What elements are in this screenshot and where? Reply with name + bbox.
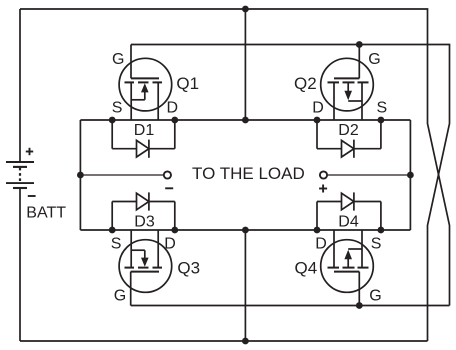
junction upper row / D2 anode stub: [314, 117, 321, 124]
node load - terminal: [164, 171, 171, 178]
svg-text:S: S: [377, 100, 388, 117]
wire left branch: [79, 120, 81, 230]
junction top rail / center vertical: [242, 6, 249, 13]
wire battery+ riser: [19, 9, 21, 162]
svg-text:D: D: [164, 235, 176, 252]
wire right branch: [409, 120, 411, 230]
svg-text:G: G: [114, 288, 126, 305]
svg-text:G: G: [112, 51, 124, 68]
transistor Q2: [321, 45, 374, 121]
wire load + lead: [327, 174, 410, 176]
junction upper row / D1 cathode stub: [171, 117, 178, 124]
svg-text:D: D: [167, 100, 179, 117]
battery - label: [28, 195, 36, 197]
battery BATT: [6, 162, 34, 188]
junction right branch / load +: [407, 172, 414, 179]
svg-text:Q1: Q1: [176, 74, 199, 93]
svg-text:D3: D3: [134, 214, 155, 231]
transistor Q1: [119, 45, 172, 121]
junction bottom gate row / Q4 gate: [356, 302, 363, 309]
svg-text:S: S: [111, 235, 122, 252]
wire center vertical bottom: [244, 230, 246, 341]
wire upper source-drain row: [80, 119, 410, 121]
junction lower row / center vertical: [242, 227, 249, 234]
diode D1: [112, 120, 175, 158]
junction top gate row / Q2 gate: [356, 41, 363, 48]
junction bottom rail / center vertical: [242, 338, 249, 345]
svg-text:S: S: [371, 235, 382, 252]
svg-text:Q3: Q3: [177, 259, 200, 278]
junction lower row / D3 anode stub: [109, 227, 116, 234]
junction upper row / D2 cathode stub: [378, 117, 385, 124]
junction lower row / D3 cathode stub: [171, 227, 178, 234]
svg-text:BATT: BATT: [26, 205, 66, 222]
load + label: [319, 185, 327, 193]
svg-text:D: D: [315, 235, 327, 252]
svg-text:D4: D4: [338, 214, 359, 231]
svg-text:G: G: [369, 287, 381, 304]
svg-text:Q4: Q4: [295, 259, 318, 278]
diode D3: [112, 192, 175, 230]
svg-text:S: S: [112, 100, 123, 117]
svg-text:D2: D2: [338, 122, 359, 139]
wire lower source-drain row: [80, 229, 410, 231]
diode D4: [317, 192, 381, 230]
svg-text:G: G: [368, 51, 380, 68]
wire top gate row into crossover to bottom rail: [131, 45, 450, 342]
svg-text:D: D: [312, 100, 324, 117]
wire load - lead: [80, 174, 163, 176]
wire center vertical top: [244, 9, 246, 120]
wire bottom rail: [20, 340, 428, 342]
junction upper row / D1 anode stub: [109, 117, 116, 124]
junction lower row / D4 cathode stub: [378, 227, 385, 234]
wire battery- riser: [19, 188, 21, 341]
diode D2: [317, 120, 381, 158]
junction upper row / center vertical: [242, 117, 249, 124]
svg-text:Q2: Q2: [294, 74, 317, 93]
svg-text:D1: D1: [134, 122, 155, 139]
wire bottom gate row: [131, 305, 450, 307]
transistor Q3: [119, 230, 172, 306]
junction lower row / D4 anode stub: [314, 227, 321, 234]
node load + terminal: [320, 171, 327, 178]
transistor Q4: [321, 230, 374, 306]
junction left branch / load -: [77, 172, 84, 179]
load - label: [165, 187, 173, 189]
svg-text:TO THE LOAD: TO THE LOAD: [192, 164, 305, 183]
battery + label: [26, 148, 33, 155]
